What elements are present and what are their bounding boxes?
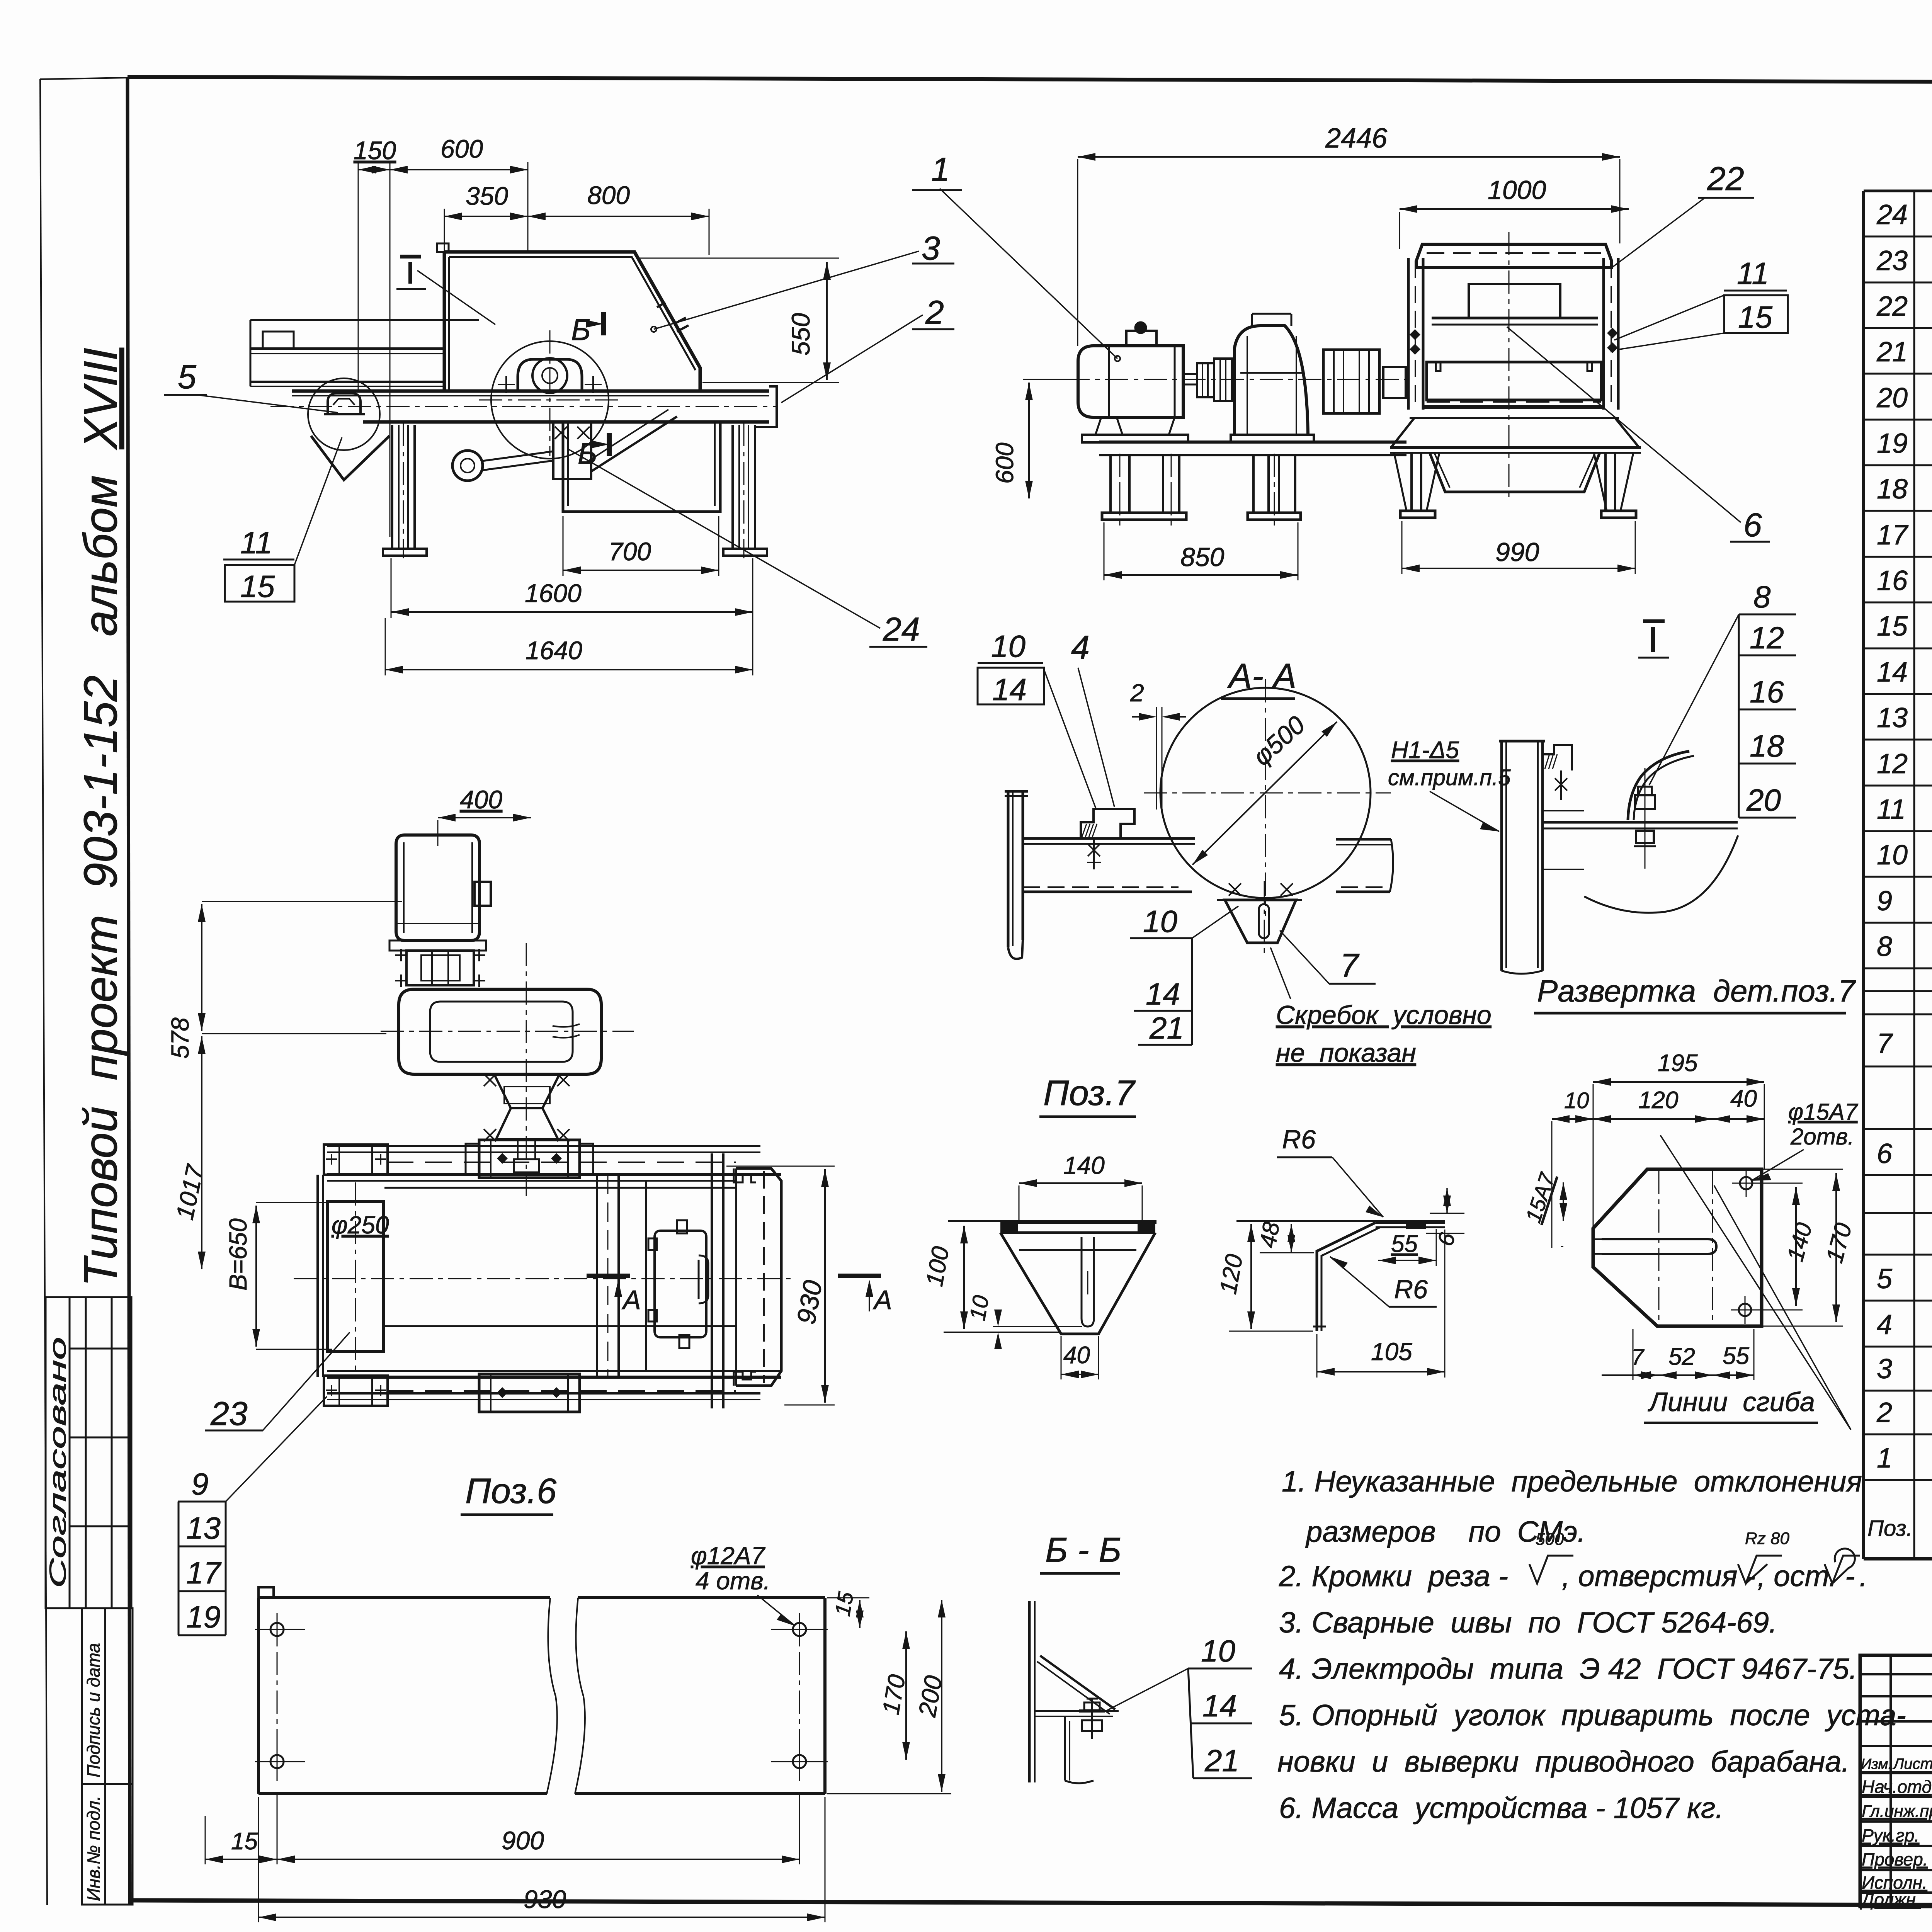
plan: top-left bearing <box>324 1145 388 1175</box>
развертка: plate outline <box>1593 1169 1762 1326</box>
svg-text:12: 12 <box>1750 621 1784 655</box>
svg-text:700: 700 <box>609 537 651 566</box>
svg-text:14: 14 <box>1877 657 1908 688</box>
svg-text:23: 23 <box>1876 245 1908 276</box>
pos7 assembly: support beam <box>1023 837 1195 840</box>
svg-text:55: 55 <box>1723 1343 1749 1369</box>
svg-text:600: 600 <box>440 134 483 163</box>
pos7 side piece: beam stubs <box>1543 821 1738 824</box>
svg-text:Нач.отд: Нач.отд <box>1862 1777 1932 1797</box>
svg-text:1: 1 <box>931 151 950 188</box>
pos7 assembly: centerlines <box>1265 679 1266 916</box>
plan: conveyor frame <box>327 1173 781 1176</box>
angle detail: bend <box>1317 1223 1376 1331</box>
svg-text:195: 195 <box>1658 1050 1698 1077</box>
svg-text:см.прим.п.5: см.прим.п.5 <box>1388 765 1511 790</box>
svg-text:40: 40 <box>1730 1085 1757 1112</box>
pos7 assembly: scraper bracket <box>1217 899 1302 901</box>
svg-text:.: . <box>1859 1560 1867 1593</box>
A-A: legs motor <box>1109 455 1112 513</box>
svg-text:12: 12 <box>1877 748 1908 779</box>
side view: drive drum bearing + section circle Б <box>491 341 609 459</box>
svg-text:Провер.: Провер. <box>1862 1849 1928 1869</box>
svg-text:55: 55 <box>1391 1231 1418 1257</box>
svg-text:А: А <box>621 1285 641 1315</box>
svg-text:19: 19 <box>1877 428 1908 459</box>
parts table rows 7..1 and header <box>1864 991 1932 1559</box>
pos7 side piece: tall plate <box>1500 741 1503 971</box>
svg-text:120: 120 <box>1638 1087 1678 1114</box>
svg-text:, отверстия -: , отверстия - <box>1562 1560 1755 1593</box>
svg-text:2. Кромки реза -: 2. Кромки реза - <box>1279 1560 1508 1593</box>
svg-text:14: 14 <box>1146 977 1180 1011</box>
svg-text:990: 990 <box>1495 537 1539 567</box>
svg-text:4: 4 <box>1877 1310 1892 1340</box>
svg-text:Согласовано: Согласовано <box>45 1337 71 1588</box>
svg-text:9: 9 <box>1877 886 1892 917</box>
svg-text:400: 400 <box>460 785 502 814</box>
A-A: legs drum unit <box>1410 453 1413 511</box>
detail I: break line <box>1584 835 1738 913</box>
svg-text:15: 15 <box>231 1828 258 1855</box>
side view: main beam <box>292 389 769 393</box>
svg-text:не показан: не показан <box>1276 1038 1416 1068</box>
plan: centerline <box>294 1278 796 1279</box>
svg-text:5: 5 <box>1877 1264 1893 1294</box>
B-B: bolt <box>1091 1699 1093 1739</box>
leader underlines <box>164 190 1770 647</box>
svg-text:1. Неуказанные предельные от: 1. Неуказанные предельные отклонения <box>1282 1465 1862 1498</box>
svg-text:105: 105 <box>1371 1338 1412 1366</box>
svg-text:140: 140 <box>1063 1151 1105 1179</box>
svg-text:350: 350 <box>466 182 508 210</box>
plan: belt dashed <box>386 1162 736 1163</box>
svg-text:Б - Б: Б - Б <box>1045 1531 1121 1570</box>
svg-text:Инв.№ подл.: Инв.№ подл. <box>83 1796 104 1901</box>
A-A: centerlines <box>1509 232 1510 502</box>
svg-text:21: 21 <box>1149 1011 1184 1045</box>
svg-text:2: 2 <box>1130 679 1144 707</box>
svg-text:11: 11 <box>1877 794 1906 825</box>
B-B: horizontal shelf <box>1035 1710 1119 1712</box>
svg-text:5: 5 <box>178 359 197 396</box>
svg-text:14: 14 <box>1202 1689 1237 1723</box>
svg-text:4 отв.: 4 отв. <box>696 1567 770 1595</box>
plan: bottom-left bearing <box>324 1376 388 1406</box>
svg-text:Развертка дет.поз.7: Развертка дет.поз.7 <box>1537 974 1856 1008</box>
svg-text:18: 18 <box>1750 729 1784 763</box>
svg-text:578: 578 <box>166 1017 194 1059</box>
svg-text:20: 20 <box>1876 383 1908 413</box>
svg-text:24: 24 <box>1876 199 1908 230</box>
plan: mid vertical member <box>596 1175 598 1377</box>
svg-text:Поз.6: Поз.6 <box>465 1471 557 1511</box>
svg-text:11: 11 <box>240 526 272 560</box>
svg-text:6. Масса устройства - 1057 кг: 6. Масса устройства - 1057 кг. <box>1279 1792 1723 1825</box>
side view: detail mark I <box>400 255 421 259</box>
svg-text:5. Опорный уголок приварить: 5. Опорный уголок приварить после уста- <box>1279 1699 1906 1732</box>
svg-text:15: 15 <box>1877 611 1908 642</box>
svg-text:φ15А7: φ15А7 <box>1788 1099 1859 1125</box>
svg-text:4. Электроды типа Э 42 ГОСТ: 4. Электроды типа Э 42 ГОСТ 9467-75. <box>1279 1653 1857 1685</box>
развертка: holes <box>1740 1177 1752 1189</box>
side view: hopper (воронка головная) <box>444 252 700 391</box>
plan: right end <box>711 1153 713 1408</box>
title block <box>1860 1655 1932 1906</box>
svg-text:10: 10 <box>965 1293 994 1322</box>
svg-text:R6: R6 <box>1282 1125 1316 1154</box>
svg-text:16: 16 <box>1877 565 1908 596</box>
B-B: angle below <box>1064 1716 1066 1781</box>
svg-text:Подпись и дата: Подпись и дата <box>83 1643 104 1777</box>
svg-text:500: 500 <box>1536 1530 1564 1549</box>
svg-text:23: 23 <box>210 1395 248 1432</box>
plan: upper coupling <box>406 951 474 985</box>
svg-text:Гл.инж.пр: Гл.инж.пр <box>1862 1802 1932 1821</box>
svg-text:15: 15 <box>1738 300 1772 334</box>
svg-text:10: 10 <box>1201 1634 1235 1668</box>
svg-text:B=650: B=650 <box>224 1218 252 1291</box>
A-A: motor <box>1078 346 1183 417</box>
bracket detail: trapezoid body <box>1000 1233 1155 1334</box>
detail I: bolt and nuts <box>1645 768 1646 869</box>
svg-text:2: 2 <box>925 294 944 331</box>
svg-text:19: 19 <box>186 1600 221 1634</box>
pos6: holes <box>270 1623 284 1636</box>
svg-text:7: 7 <box>1877 1028 1893 1059</box>
svg-text:22: 22 <box>1876 291 1908 322</box>
plan: ladder 9 13 17 19 <box>178 1502 180 1635</box>
svg-text:Линии сгиба: Линии сгиба <box>1648 1387 1815 1417</box>
svg-text:Рук.гр.: Рук.гр. <box>1862 1825 1919 1845</box>
svg-text:17: 17 <box>1877 520 1909 551</box>
svg-text:22: 22 <box>1707 160 1744 197</box>
A-A: drum unit lid <box>1416 244 1612 267</box>
A-A: drum chute <box>1430 453 1600 492</box>
svg-text:15: 15 <box>830 1590 858 1618</box>
svg-text:2: 2 <box>1876 1397 1892 1428</box>
plan: motor base <box>389 940 486 951</box>
svg-text:18: 18 <box>1877 474 1908 505</box>
svg-text:21: 21 <box>1204 1743 1239 1778</box>
pos7 side piece: top clamp <box>1543 745 1572 770</box>
svg-text:Скребок условно: Скребок условно <box>1276 1000 1492 1030</box>
pos6: plate outline <box>259 1587 274 1598</box>
svg-text:16: 16 <box>1750 675 1784 709</box>
parts table grid <box>1864 191 1932 1559</box>
svg-text:8: 8 <box>1877 931 1892 962</box>
svg-text:1000: 1000 <box>1488 175 1546 205</box>
side view: right legs <box>731 425 734 549</box>
svg-text:8: 8 <box>1753 580 1771 614</box>
svg-text:850: 850 <box>1180 543 1225 572</box>
side view: left legs <box>391 425 393 549</box>
svg-text:1640: 1640 <box>526 636 582 665</box>
svg-text:3: 3 <box>922 230 940 267</box>
plan: bottom transverse beam + bearing <box>327 1392 760 1395</box>
A-A: drum side channels <box>1407 258 1410 410</box>
side view: tail drum + bracket <box>308 378 380 450</box>
B-B: extra bolt details <box>1079 1709 1105 1713</box>
svg-text:Н1-Δ5: Н1-Δ5 <box>1391 737 1459 764</box>
plan: motor <box>396 835 480 940</box>
svg-text:48: 48 <box>1255 1219 1285 1250</box>
svg-text:10: 10 <box>1877 840 1908 871</box>
svg-text:3. Сварные швы по ГОСТ 5264: 3. Сварные швы по ГОСТ 5264-69. <box>1279 1606 1777 1639</box>
svg-text:800: 800 <box>587 181 630 209</box>
plan: lower coupling <box>495 1075 559 1108</box>
left margin strip <box>46 1297 133 1905</box>
B-B: vertical plate <box>1028 1601 1031 1782</box>
svg-text:7: 7 <box>1340 947 1360 984</box>
A-A: base frame <box>1099 440 1406 444</box>
svg-text:21: 21 <box>1876 337 1908 367</box>
svg-text:20: 20 <box>1746 783 1781 817</box>
svg-text:φ12А7: φ12А7 <box>691 1542 766 1570</box>
svg-text:Лист: Лист <box>1892 1755 1932 1772</box>
svg-text:52: 52 <box>1668 1344 1695 1370</box>
plan: door <box>655 1231 706 1337</box>
svg-text:11: 11 <box>1737 256 1769 291</box>
B-B: diagonal brace <box>1040 1656 1115 1709</box>
parts table rows 24..8 <box>1864 236 1932 968</box>
svg-text:3: 3 <box>1877 1354 1892 1384</box>
svg-text:Б: Б <box>571 313 591 347</box>
pos7 assembly: drum circle <box>1160 688 1371 898</box>
svg-text:6: 6 <box>1877 1138 1893 1169</box>
pos7 assembly: left wall <box>1007 791 1010 947</box>
svg-text:900: 900 <box>502 1826 544 1855</box>
svg-text:9: 9 <box>191 1467 209 1501</box>
plan: drum φ250 <box>328 1202 383 1352</box>
svg-text:150: 150 <box>354 136 396 165</box>
svg-text:15: 15 <box>240 569 275 604</box>
svg-text:1: 1 <box>1877 1443 1892 1474</box>
A-A: drum bolts <box>1410 329 1420 340</box>
svg-text:40: 40 <box>1063 1342 1090 1369</box>
svg-text:14: 14 <box>992 672 1027 707</box>
svg-text:13: 13 <box>1877 702 1908 733</box>
A-A: legs gearbox <box>1252 455 1255 513</box>
pos7 assembly: clamp bracket <box>1081 809 1134 838</box>
A-A: drum support table <box>1410 417 1619 419</box>
svg-text:Типовой проект 903-1-152 а: Типовой проект 903-1-152 альбом XVIII <box>74 348 127 1287</box>
A-A: drum body <box>1427 362 1601 400</box>
svg-text:Должн.: Должн. <box>1860 1889 1921 1910</box>
svg-text:Поз.7: Поз.7 <box>1043 1073 1136 1113</box>
A-A: drum shelf <box>1432 317 1598 320</box>
svg-text:Rz 80: Rz 80 <box>1745 1529 1789 1548</box>
svg-text:Изм.: Изм. <box>1861 1756 1892 1772</box>
svg-text:10: 10 <box>991 629 1026 663</box>
side view: tail rails left <box>250 347 444 350</box>
pos6: break lines <box>547 1598 557 1794</box>
svg-text:Поз.: Поз. <box>1867 1516 1913 1541</box>
plan: gearbox <box>399 989 601 1074</box>
svg-text:новки и выверки приводного: новки и выверки приводного барабана. <box>1277 1745 1850 1778</box>
side view: discharge chute <box>563 422 720 512</box>
plan: top transverse beam + bearing <box>327 1145 760 1147</box>
svg-text:1600: 1600 <box>525 579 582 607</box>
развертка: slot <box>1602 1239 1716 1254</box>
bracket detail: top plate <box>948 1220 1156 1222</box>
bracket detail: slot <box>1082 1237 1094 1327</box>
side view: scraper arm + counterweight <box>452 451 483 481</box>
svg-text:13: 13 <box>186 1511 221 1545</box>
svg-text:930: 930 <box>524 1885 566 1913</box>
svg-text:17: 17 <box>186 1556 221 1590</box>
angle detail: plate <box>1376 1221 1445 1224</box>
svg-text:2отв.: 2отв. <box>1790 1124 1854 1150</box>
A-A: drum window <box>1469 284 1560 318</box>
A-A: brake pulley <box>1323 350 1379 413</box>
svg-text:24: 24 <box>883 611 920 648</box>
A-A: coupling <box>1197 363 1214 397</box>
pos7 assembly: diameter 500 <box>1192 722 1337 865</box>
svg-text:R6: R6 <box>1394 1275 1428 1304</box>
angle detail: ref line <box>1236 1220 1445 1222</box>
svg-text:10: 10 <box>1143 904 1177 939</box>
svg-text:6: 6 <box>1743 507 1762 544</box>
svg-text:4: 4 <box>1071 629 1090 666</box>
svg-text:2446: 2446 <box>1325 123 1388 154</box>
svg-text:А: А <box>872 1285 892 1315</box>
svg-text:10: 10 <box>1564 1088 1589 1113</box>
svg-text:600: 600 <box>991 442 1019 484</box>
A-A: gearbox <box>1235 326 1308 435</box>
svg-text:φ250: φ250 <box>332 1211 389 1239</box>
svg-text:550: 550 <box>786 313 815 355</box>
развертка: bend lines <box>1658 1171 1660 1325</box>
detail I: mark I <box>1643 619 1665 623</box>
detail I: scraper blade curve <box>1628 751 1689 820</box>
